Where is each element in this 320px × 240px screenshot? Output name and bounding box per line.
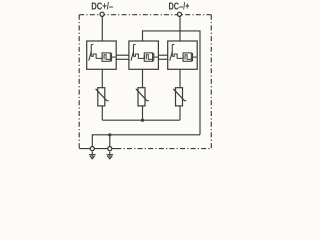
star-point bus wire [102, 119, 180, 121]
label DC+/- [91, 1, 113, 12]
enclosure dash-dot frame left edge [78, 15, 80, 149]
enclosure dash-dot frame right edge [210, 15, 212, 149]
varistor R2 [136, 88, 149, 106]
coupling double line P2-P3 upper [158, 54, 167, 56]
wire junction drop to earth terminal E2 [109, 135, 111, 147]
enclosure dash-dot frame top edge [79, 14, 211, 16]
wire PE loop: module P2 top up, across right, down to PE line [143, 31, 201, 135]
wire module P1 bottom to varistor R1 [101, 69, 103, 87]
wire varistor R2 to star-point bus [142, 106, 144, 120]
enclosure dash-dot frame bottom edge [124, 148, 212, 150]
terminal DC-/+ circle [177, 12, 181, 16]
terminal DC+/- circle [100, 12, 104, 16]
svg-text:DC+/–: DC+/– [91, 1, 113, 12]
varistor R3 [173, 88, 186, 106]
SCI switching device box P1 [87, 41, 117, 69]
label DC-/+ [169, 1, 190, 12]
ground symbol E2 [106, 152, 113, 159]
junction dot on star-point bus [141, 119, 144, 122]
wire PE horizontal line to earth terminals [92, 135, 200, 147]
wire module P3 bottom to varistor R3 [179, 69, 181, 87]
enclosure frame bottom edge solid segment through earth terminals [79, 148, 121, 150]
junction dot on PE line [108, 133, 111, 136]
coupling double line P1-P2 lower [116, 58, 129, 60]
wire varistor R1 to star-point bus [101, 106, 103, 120]
ground symbol E1 [89, 152, 96, 159]
earth terminal E1 circle [90, 147, 94, 151]
wire module P2 bottom to varistor R2 [142, 69, 144, 87]
wire DC- terminal to protection module P3 top [179, 17, 181, 41]
wire varistor R3 to star-point bus [179, 106, 181, 120]
svg-text:DC–/+: DC–/+ [169, 1, 190, 12]
wire DC+ terminal to protection module P1 top [101, 17, 103, 41]
varistor R1 [96, 88, 109, 106]
SCI switching device box P2 [129, 41, 159, 69]
earth terminal E2 circle [108, 147, 112, 151]
coupling double line P1-P2 upper [116, 54, 129, 56]
SCI switching device box P3 [168, 41, 198, 69]
coupling double line P2-P3 lower [158, 58, 167, 60]
